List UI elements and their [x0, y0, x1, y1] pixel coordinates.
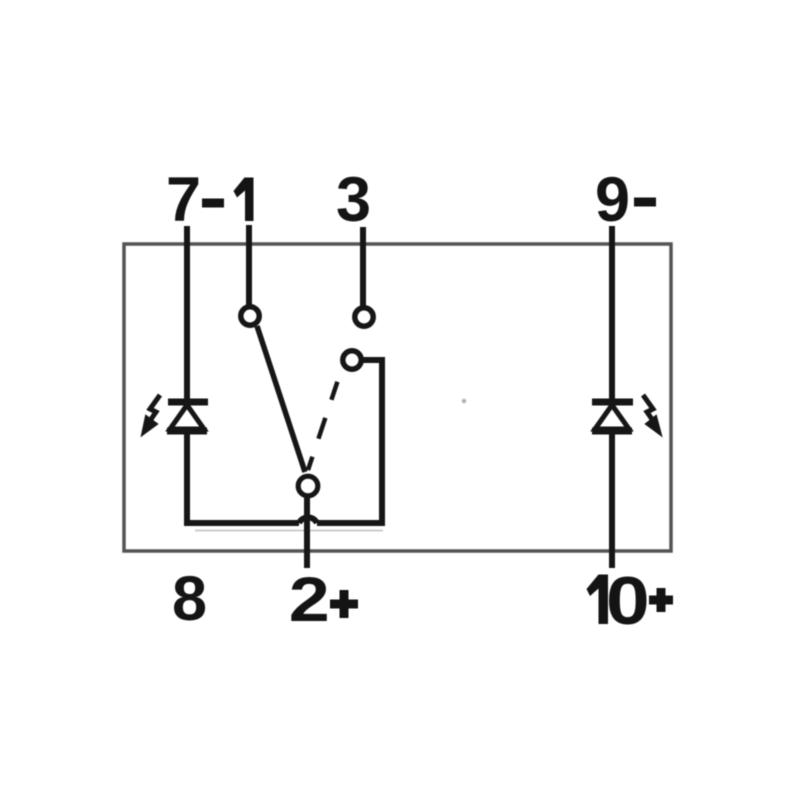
svg-text:8: 8: [172, 564, 207, 634]
switch contact circle pin 3: [355, 308, 373, 326]
LED D1 anode base bar: [167, 428, 207, 435]
svg-text:0: 0: [606, 562, 650, 639]
switch contact circle pin 1: [241, 307, 259, 325]
svg-text:3: 3: [336, 165, 371, 235]
component outline box: [124, 244, 671, 551]
plus after 2: [330, 590, 358, 618]
LED D1 triangle: [170, 405, 204, 429]
LED D2 triangle: [595, 405, 629, 429]
bottom internal rail right segment: [317, 520, 385, 526]
switch blade (closed position): [257, 326, 305, 472]
wire LED D1 to bottom rail: [184, 433, 190, 526]
pin 10 label: [587, 575, 609, 625]
LED D2 cathode bar: [592, 399, 633, 406]
svg-text:9: 9: [595, 165, 630, 235]
LED D1 light arrow: [147, 395, 160, 425]
pin 7 wire: [184, 226, 190, 399]
LED D1 cathode bar: [168, 399, 208, 406]
pin 9 wire: [609, 226, 615, 399]
switch blade dashed (actuated position): [308, 377, 339, 470]
wire from aux contact to right drop: [363, 360, 382, 523]
bottom internal rail left segment: [184, 520, 299, 526]
pin 3 wire: [360, 227, 366, 307]
pin 2 wire: [304, 496, 310, 568]
svg-text:2: 2: [289, 564, 330, 635]
wire hop over pin 2 wire: [299, 517, 317, 523]
dash after 9: [634, 198, 656, 207]
svg-text:7: 7: [166, 165, 201, 235]
pin 10 wire: [609, 433, 615, 568]
dash between 7 and 1: [202, 199, 224, 208]
pin 1 label: [234, 178, 254, 222]
LED D2 light arrow: [643, 395, 656, 425]
LED D2 anode base bar: [592, 428, 632, 435]
switch pole circle: [298, 476, 318, 496]
switch contact circle aux: [343, 351, 361, 369]
pin 1 wire: [246, 225, 252, 306]
plus after 10: [649, 588, 673, 612]
